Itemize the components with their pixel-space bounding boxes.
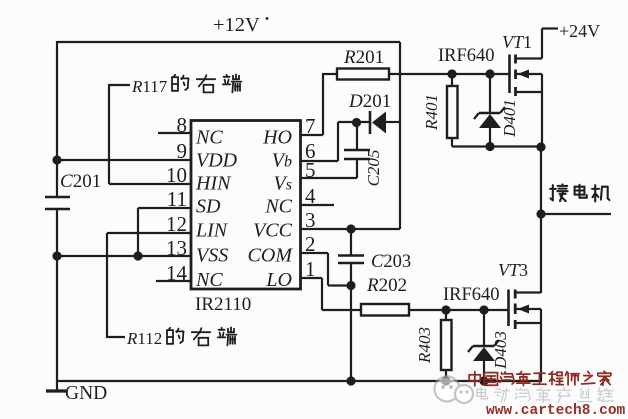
svg-text:12: 12 — [166, 212, 187, 236]
svg-text:8: 8 — [177, 113, 188, 137]
svg-text:3: 3 — [305, 208, 316, 232]
svg-text:11: 11 — [167, 187, 187, 211]
svg-text:2: 2 — [305, 232, 316, 256]
svg-text:LO: LO — [265, 269, 292, 291]
svg-text:13: 13 — [166, 236, 187, 260]
svg-text:C201: C201 — [60, 171, 101, 192]
svg-text:R117: R117 — [131, 77, 168, 96]
svg-text:IRF640: IRF640 — [438, 46, 495, 66]
svg-text:HO: HO — [262, 127, 292, 149]
svg-text:VT1: VT1 — [502, 32, 532, 52]
svg-text:+12V: +12V — [213, 14, 260, 36]
svg-text:14: 14 — [166, 261, 188, 285]
svg-text:HIN: HIN — [195, 173, 232, 195]
svg-text:IRF640: IRF640 — [443, 285, 500, 305]
svg-text:IR2110: IR2110 — [195, 294, 251, 315]
svg-text:NC: NC — [264, 196, 292, 218]
svg-text:7: 7 — [305, 114, 316, 138]
svg-text:VCC: VCC — [253, 220, 293, 242]
svg-text:+24V: +24V — [559, 21, 600, 41]
svg-text:VSS: VSS — [196, 245, 228, 267]
svg-text:D403: D403 — [491, 331, 510, 370]
svg-text:D401: D401 — [500, 99, 519, 138]
svg-text:LIN: LIN — [195, 220, 229, 242]
svg-text:D201: D201 — [348, 91, 391, 112]
svg-text:SD: SD — [196, 196, 221, 218]
svg-text:GND: GND — [65, 383, 107, 404]
svg-text:9: 9 — [177, 139, 188, 163]
svg-text:R202: R202 — [366, 275, 407, 296]
svg-text:4: 4 — [305, 184, 316, 208]
svg-text:VT3: VT3 — [498, 260, 528, 280]
svg-text:www.cartech8.com: www.cartech8.com — [486, 403, 626, 419]
svg-text:Vs: Vs — [274, 173, 292, 195]
svg-text:5: 5 — [305, 158, 316, 182]
svg-text:R112: R112 — [126, 329, 162, 348]
svg-text:COM: COM — [248, 245, 294, 267]
svg-text:Vb: Vb — [272, 150, 292, 172]
svg-text:R201: R201 — [343, 47, 384, 68]
svg-text:VDD: VDD — [196, 150, 238, 172]
svg-text:R403: R403 — [415, 327, 434, 364]
svg-text:R401: R401 — [422, 94, 441, 131]
svg-text:1: 1 — [305, 257, 316, 281]
svg-text:10: 10 — [166, 163, 187, 187]
svg-text:C205: C205 — [364, 150, 383, 187]
svg-text:C203: C203 — [371, 252, 411, 272]
svg-text:NC: NC — [195, 269, 223, 291]
svg-text:NC: NC — [195, 127, 223, 149]
